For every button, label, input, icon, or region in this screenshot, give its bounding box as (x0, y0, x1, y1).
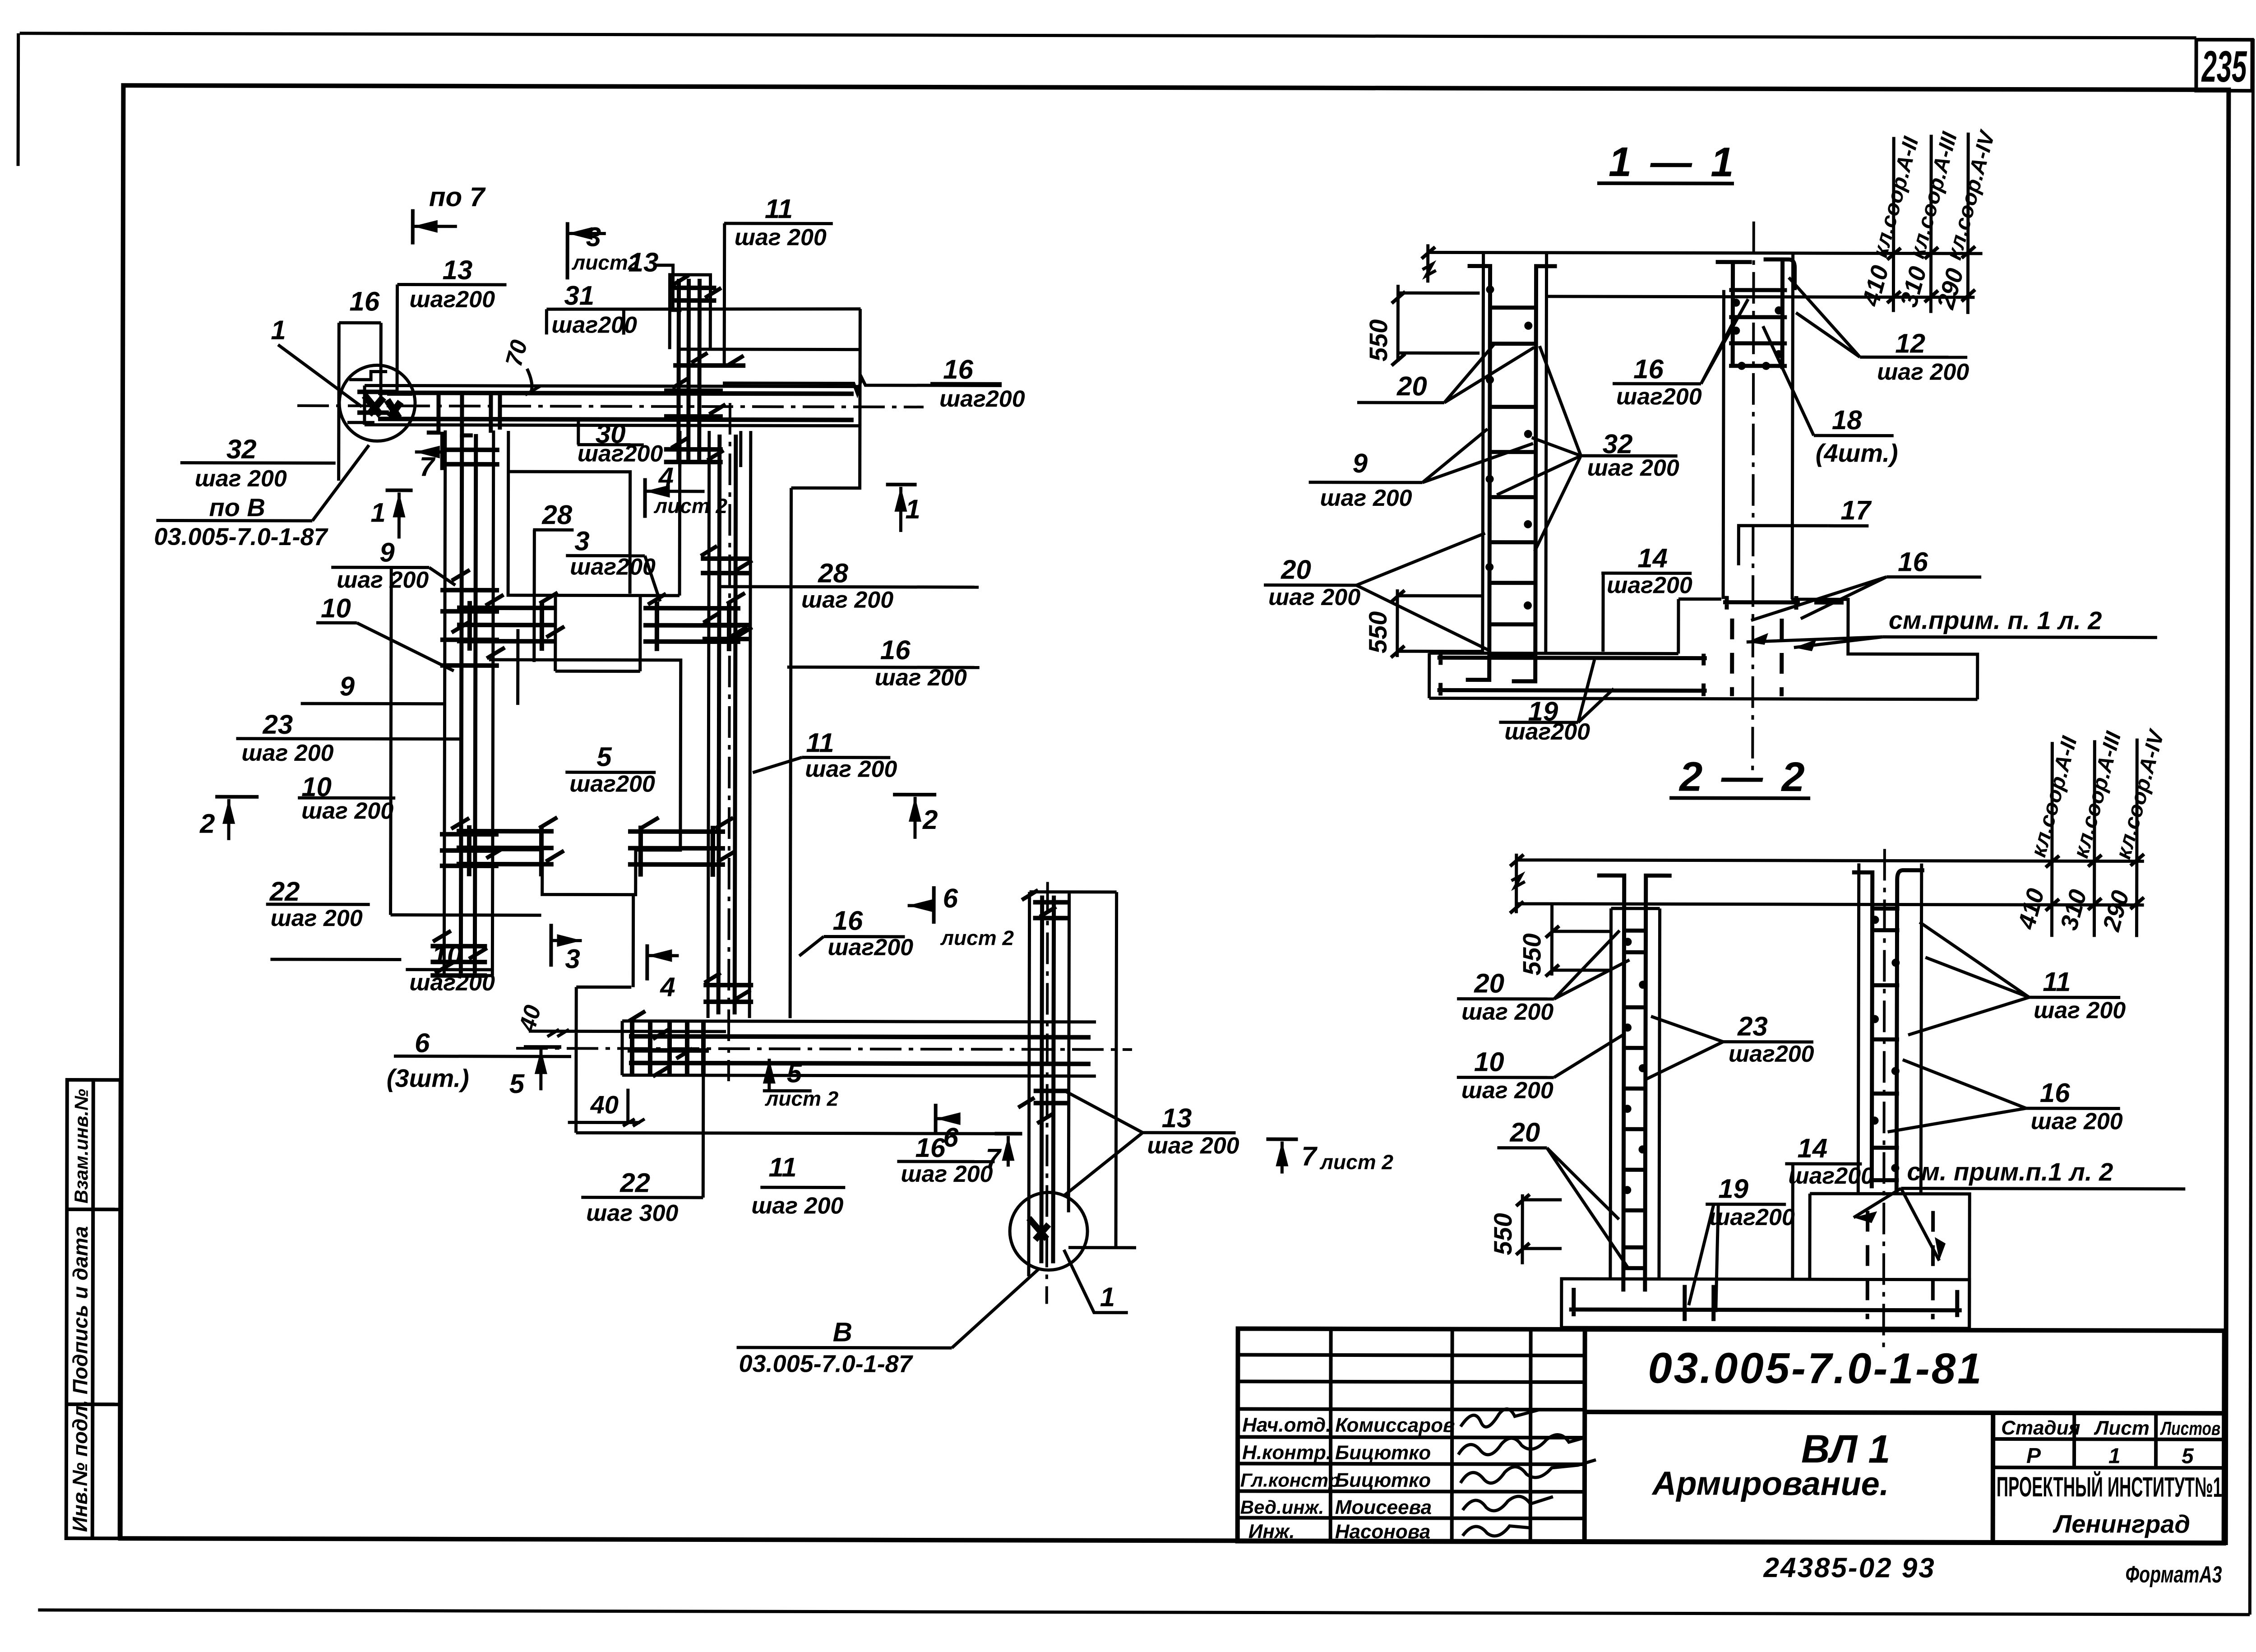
s22 right wall dots (1870, 916, 1900, 1172)
svg-text:шаг 300: шаг 300 (586, 1200, 678, 1226)
signature squiggle 2 (1458, 1435, 1585, 1455)
label po7 marker (411, 209, 415, 245)
plan: top wall axis dash-dot (297, 406, 924, 407)
title block signature table horizontals (1238, 1355, 1585, 1356)
paper trim border bottom (38, 1610, 2250, 1615)
s22 dim 550 bottom (1522, 1194, 1562, 1264)
plan: top wall lower rebar (378, 419, 854, 420)
plan: bottom-right hook blobs in circle (1029, 1218, 1049, 1240)
plan: right band ties (700, 559, 754, 1002)
plan: right band rebars (718, 435, 736, 1014)
plan: crossing band top ties (672, 288, 745, 366)
svg-text:шаг 200: шаг 200 (337, 567, 429, 593)
svg-text:1 — 1: 1 — 1 (1609, 139, 1738, 185)
plan: left wall tie cluster A (440, 590, 499, 666)
svg-text:шаг 200: шаг 200 (1268, 584, 1360, 611)
plan: tie cluster C2 (643, 602, 740, 651)
plan: left wall side bar pair (391, 567, 542, 915)
svg-text:6: 6 (415, 1028, 430, 1058)
plan: crossing band top cap (670, 275, 710, 349)
svg-text:Армирование.: Армирование. (1651, 1464, 1889, 1502)
section mark 2 right (893, 793, 936, 796)
svg-text:ПРОЕКТНЫЙ ИНСТИТУТ№1: ПРОЕКТНЫЙ ИНСТИТУТ№1 (1997, 1471, 2222, 1503)
title block outer (1238, 1328, 2224, 1543)
plan: detail circle 1 (left end) (339, 365, 415, 441)
svg-text:шаг 200: шаг 200 (1147, 1133, 1239, 1159)
svg-text:16: 16 (1898, 546, 1928, 577)
plan: cluster hook ticks (433, 275, 1058, 1124)
svg-text:лист 2: лист 2 (1319, 1150, 1393, 1174)
plan: right vertical band outlines (708, 431, 791, 1018)
plan: bottom wall outlines (622, 1021, 1096, 1076)
svg-text:шаг200: шаг200 (1607, 572, 1692, 598)
plan: crossing band bottom ties (664, 449, 723, 462)
PLAN (152, 181, 1241, 1378)
svg-text:10: 10 (1474, 1047, 1504, 1077)
s11 left wall ties (1489, 308, 1536, 656)
signature squiggle 1 (1461, 1409, 1539, 1427)
svg-text:550: 550 (1517, 933, 1546, 976)
svg-text:шаг 200: шаг 200 (1461, 999, 1553, 1025)
s22 right wall rebars with hooks (1851, 870, 1924, 1193)
svg-text:20: 20 (1474, 968, 1504, 999)
s11 left wall rebar right with hooks (1512, 266, 1557, 681)
svg-text:20: 20 (1396, 371, 1427, 401)
svg-text:22: 22 (269, 876, 300, 907)
svg-text:17: 17 (1840, 495, 1872, 525)
svg-text:16: 16 (943, 354, 974, 384)
svg-text:см.прим. п. 1 л. 2: см.прим. п. 1 л. 2 (1889, 606, 2102, 634)
svg-text:Гл.констр: Гл.констр (1240, 1469, 1340, 1490)
svg-text:70: 70 (501, 337, 533, 369)
s11 left wall outlines (1483, 253, 1547, 653)
plan: rebar end blobs in circle (365, 395, 401, 418)
svg-text:Комиссаров: Комиссаров (1335, 1414, 1455, 1437)
svg-text:550: 550 (1489, 1213, 1517, 1255)
svg-text:24385-02 93: 24385-02 93 (1763, 1552, 1935, 1584)
svg-text:ФорматА3: ФорматА3 (2125, 1562, 2222, 1588)
signature squiggle 3 (1461, 1459, 1596, 1483)
plan: crossing band rebar verticals (679, 279, 700, 464)
svg-text:3: 3 (574, 526, 590, 556)
plan: top wall bottom outline (365, 425, 860, 426)
svg-text:2: 2 (199, 809, 215, 839)
s22 left wall rebars with hooks (1596, 875, 1672, 1291)
s22 marker 7 list2 (1267, 1138, 1298, 1141)
plan: left wall tie cluster top (441, 450, 499, 464)
svg-text:Взам.инв.№: Взам.инв.№ (70, 1089, 92, 1203)
svg-text:по В: по В (209, 493, 265, 522)
svg-text:11: 11 (765, 194, 793, 224)
svg-text:10: 10 (432, 940, 462, 970)
svg-text:лист 2: лист 2 (940, 926, 1014, 949)
section mark 4 bottom (645, 944, 649, 981)
paper trim border left stub (17, 33, 20, 166)
leader to detail circle bottom (1064, 1250, 1128, 1313)
svg-text:шаг 200: шаг 200 (735, 224, 827, 250)
s11 footing rebar with hooks (1438, 653, 1707, 696)
svg-text:19: 19 (1718, 1174, 1749, 1204)
s11 footing outline (1429, 598, 1978, 699)
s11 right wall outlines (1723, 253, 1793, 599)
svg-text:Инж.: Инж. (1248, 1520, 1295, 1542)
paper trim border right (2250, 39, 2253, 1615)
s22 footing bar stubs (1685, 1285, 1714, 1321)
label 7 marker small (440, 432, 444, 470)
svg-text:5: 5 (2182, 1444, 2194, 1468)
plan: middle lower rectangle (489, 660, 681, 895)
plan: top wall upper rebar (378, 393, 854, 393)
svg-text:шаг 200: шаг 200 (805, 756, 897, 782)
plan: top wall left end cap (363, 385, 366, 425)
svg-text:Р: Р (2026, 1444, 2041, 1468)
svg-text:16: 16 (1633, 354, 1664, 384)
svg-text:13: 13 (629, 247, 659, 278)
svg-text:Лист: Лист (2094, 1417, 2150, 1439)
svg-text:Листов: Листов (2160, 1418, 2220, 1439)
svg-text:5: 5 (509, 1069, 525, 1099)
plan: bottom wall rebars (629, 1037, 1091, 1064)
plan: left end hook detail strokes (357, 392, 398, 412)
svg-text:1: 1 (2108, 1444, 2121, 1468)
s11 dashed anchor bars (1732, 619, 1782, 696)
section 2-2 title underline (1669, 796, 1810, 800)
svg-text:7: 7 (420, 452, 436, 482)
plan: middle upper rectangle (508, 431, 680, 671)
svg-text:шаг 200: шаг 200 (1461, 1077, 1553, 1103)
s22 right step outline (1810, 1194, 1970, 1328)
svg-text:(3шт.): (3шт.) (387, 1064, 469, 1092)
label 5 list2 bottom center (767, 1059, 771, 1091)
s22 top dim extension (1512, 854, 2144, 915)
svg-text:Вед.инж.: Вед.инж. (1240, 1496, 1324, 1518)
svg-text:14: 14 (1797, 1133, 1827, 1163)
page number box (2196, 40, 2252, 91)
plan: left wall tie cluster B (440, 834, 499, 866)
svg-text:290: 290 (1932, 265, 1969, 312)
plan: bottom-right band rebars (1041, 896, 1054, 1263)
s11 right axis dash-dot (1752, 222, 1754, 771)
plan: crossing band mid ties (664, 391, 723, 416)
svg-text:9: 9 (340, 671, 355, 701)
svg-text:310: 310 (2055, 887, 2092, 933)
s22 right axis dash-dot (1884, 849, 1885, 1353)
s22 right wall ties (1870, 908, 1899, 1180)
plan: top wall leader line 16 with break (723, 378, 1002, 393)
svg-text:шаг 200: шаг 200 (271, 905, 363, 931)
s22 footing rebar (1569, 1288, 1962, 1317)
svg-text:7: 7 (985, 1143, 1002, 1173)
plan: bottom-right band axis dash-dot (1047, 882, 1048, 1304)
plan: foundation step right (791, 309, 860, 488)
s22 dim oblique ticks (1510, 855, 1524, 913)
svg-text:Бицютко: Бицютко (1335, 1442, 1431, 1464)
svg-text:Н.контр.: Н.контр. (1242, 1441, 1331, 1463)
s11 left wall rebar left with hooks (1466, 266, 1490, 680)
s11 right top cage verticals (1733, 261, 1783, 369)
svg-text:шаг200: шаг200 (1709, 1204, 1795, 1231)
svg-text:шаг 200: шаг 200 (801, 587, 893, 613)
svg-text:22: 22 (619, 1168, 650, 1198)
section mark 1 left (386, 488, 413, 492)
label 5 arrow bottom-left (524, 1045, 561, 1049)
s11 left wall rebar dots (1485, 286, 1533, 610)
svg-text:(4шт.): (4шт.) (1816, 439, 1898, 467)
svg-text:11: 11 (2043, 967, 2071, 997)
svg-text:лист 2: лист 2 (653, 494, 727, 518)
svg-text:Инв.№ подл.: Инв.№ подл. (68, 1400, 92, 1532)
plan: bottom-right band ties (1033, 902, 1070, 1103)
svg-text:03.005-7.0-1-81: 03.005-7.0-1-81 (1648, 1344, 1983, 1393)
title block doc number field line (1585, 1412, 2224, 1413)
s11 dim 550 bottom (1397, 589, 1483, 657)
svg-text:03.005-7.0-1-87: 03.005-7.0-1-87 (154, 523, 328, 551)
s11 right step outline (1791, 599, 1978, 699)
signature squiggle 5 (1463, 1526, 1530, 1536)
svg-text:23: 23 (1737, 1011, 1768, 1041)
s11 top dimension line (1422, 244, 1974, 297)
signature squiggle 4 (1463, 1496, 1553, 1511)
plan: bottom wall left foundation outline (529, 894, 1019, 1134)
svg-text:шаг 200: шаг 200 (751, 1193, 843, 1219)
svg-text:шаг 200: шаг 200 (2031, 1108, 2123, 1134)
svg-text:32: 32 (227, 434, 257, 464)
svg-text:5: 5 (787, 1058, 803, 1088)
svg-text:31: 31 (564, 280, 594, 310)
paper trim border top (20, 33, 2196, 38)
svg-text:6: 6 (943, 1122, 958, 1152)
svg-text:3: 3 (586, 222, 601, 252)
label 3 list2 marker top (566, 222, 569, 279)
svg-text:шаг 200: шаг 200 (241, 740, 333, 766)
plan: left vertical wall outlines (444, 430, 494, 976)
svg-text:20: 20 (1281, 555, 1311, 585)
svg-text:шаг200: шаг200 (570, 554, 656, 580)
title block signature table verticals (1329, 1329, 1333, 1541)
plan: left vertical wall rebars (461, 434, 476, 973)
svg-text:16: 16 (915, 1133, 946, 1163)
svg-text:шаг 200: шаг 200 (1587, 455, 1679, 481)
svg-text:В: В (833, 1317, 852, 1347)
label 4 list2 marker (643, 478, 647, 518)
svg-text:4: 4 (660, 972, 675, 1002)
SECTIONS (1262, 125, 2188, 1354)
svg-text:11: 11 (768, 1152, 796, 1182)
s11 right cage dots (1732, 299, 1783, 370)
svg-text:1: 1 (1100, 1282, 1115, 1312)
s11 top surface line (1428, 252, 1983, 254)
svg-text:2: 2 (922, 805, 938, 835)
svg-text:шаг 200: шаг 200 (2034, 997, 2126, 1023)
plan: top wall top outline (365, 385, 860, 386)
svg-text:по 7: по 7 (429, 182, 486, 212)
svg-text:410: 410 (2013, 886, 2050, 933)
svg-text:28: 28 (818, 558, 849, 588)
plan: bottom-right vertical band outlines (1029, 892, 1137, 1276)
s22 left wall dots (1623, 938, 1647, 1194)
svg-text:шаг200: шаг200 (578, 440, 663, 467)
label 6 list2 right (932, 886, 936, 924)
svg-text:шаг 200: шаг 200 (195, 466, 287, 492)
plan: crossing band lower part (680, 431, 741, 467)
svg-text:шаг200: шаг200 (939, 386, 1025, 412)
svg-text:16: 16 (2040, 1078, 2071, 1108)
svg-text:шаг200: шаг200 (1788, 1163, 1874, 1189)
s11 rotated dim separators (1893, 132, 1968, 314)
plan: tie cluster C3 (457, 825, 554, 876)
svg-text:16: 16 (349, 286, 380, 316)
svg-text:шаг200: шаг200 (1616, 384, 1702, 410)
svg-text:12: 12 (1895, 328, 1925, 358)
s11 dim oblique ticks (1422, 247, 1435, 259)
svg-text:40: 40 (590, 1090, 619, 1119)
label 6 bottom tick (934, 1104, 938, 1133)
svg-text:10: 10 (321, 593, 351, 623)
section 1-1 title underline (1597, 181, 1734, 185)
plan: foundation outline above top wall right part (679, 347, 860, 351)
svg-text:13: 13 (443, 255, 473, 285)
svg-text:16: 16 (832, 906, 863, 936)
svg-text:Насонова: Насонова (1335, 1521, 1431, 1543)
svg-text:03.005-7.0-1-87: 03.005-7.0-1-87 (739, 1350, 913, 1378)
plan: tie cluster C1 (457, 601, 554, 651)
plan: right band axis dash-dot (729, 403, 730, 1081)
plan: left wall tie cluster C (430, 946, 487, 976)
svg-text:16: 16 (880, 635, 911, 665)
s22 left wall ties (1623, 930, 1647, 1268)
svg-text:шаг 200: шаг 200 (1877, 359, 1969, 385)
svg-text:лист 2: лист 2 (765, 1087, 839, 1110)
svg-text:9: 9 (1353, 448, 1368, 478)
svg-text:шаг200: шаг200 (1729, 1041, 1814, 1067)
svg-text:шаг 200: шаг 200 (301, 798, 393, 824)
s11 dim 550 top (1398, 285, 1479, 361)
s22 left wall outlines (1610, 908, 1660, 1279)
svg-text:290: 290 (2098, 888, 2135, 935)
svg-text:11: 11 (806, 727, 834, 758)
svg-text:9: 9 (379, 537, 395, 567)
plan: tie cluster C4 (628, 826, 725, 877)
s11 right top cage hooks (1715, 259, 1794, 290)
s22 dashed anchor bars right (1868, 1211, 1933, 1319)
svg-text:Нач.отд.: Нач.отд. (1242, 1414, 1331, 1436)
svg-text:28: 28 (541, 500, 573, 530)
svg-text:5: 5 (596, 741, 612, 772)
svg-text:4: 4 (658, 462, 674, 492)
svg-text:шаг200: шаг200 (828, 935, 913, 961)
svg-text:Подпись и дата: Подпись и дата (68, 1226, 92, 1394)
svg-text:шаг200: шаг200 (409, 287, 495, 313)
svg-text:1: 1 (271, 315, 286, 345)
svg-text:Ленинград: Ленинград (2053, 1509, 2190, 1538)
svg-text:235: 235 (2201, 42, 2247, 91)
svg-text:шаг 200: шаг 200 (901, 1161, 993, 1187)
svg-text:20: 20 (1510, 1117, 1540, 1148)
s11 right footing rebar (1723, 596, 1844, 610)
s22 right wall outlines (1858, 863, 1922, 1194)
svg-text:23: 23 (262, 709, 293, 740)
svg-text:550: 550 (1364, 611, 1392, 654)
left margin stamp column boxes (66, 1080, 120, 1538)
svg-text:13: 13 (1162, 1103, 1192, 1133)
svg-text:14: 14 (1637, 543, 1668, 573)
svg-text:18: 18 (1832, 405, 1863, 435)
name field vertical (1991, 1413, 1996, 1543)
svg-text:3: 3 (565, 944, 580, 974)
svg-text:1: 1 (370, 497, 386, 528)
svg-text:шаг200: шаг200 (1504, 719, 1590, 745)
svg-text:Стадия: Стадия (2001, 1417, 2080, 1439)
s11 right top cage ties (1729, 290, 1787, 366)
section mark 2 left (215, 795, 259, 799)
plan: detail circle B (bottom right) (1010, 1192, 1087, 1270)
svg-text:7: 7 (1301, 1141, 1318, 1171)
svg-text:2 — 2: 2 — 2 (1678, 754, 1808, 800)
section mark 3 bottom (549, 924, 553, 967)
plan: bottom wall axis dash-dot (516, 1048, 1132, 1050)
svg-text:1: 1 (905, 494, 920, 524)
s22 dim 550 top (1552, 903, 1611, 976)
svg-text:6: 6 (943, 883, 958, 913)
svg-text:550: 550 (1364, 319, 1392, 362)
svg-text:см. прим.п.1 л. 2: см. прим.п.1 л. 2 (1907, 1157, 2113, 1186)
s22 rotated dim separators (2052, 738, 2137, 937)
svg-text:шаг 200: шаг 200 (875, 665, 967, 691)
svg-text:шаг 200: шаг 200 (1320, 485, 1412, 511)
plan: bottom wall left tie cluster (628, 1021, 709, 1074)
svg-text:шаг200: шаг200 (569, 771, 655, 797)
stadia list listov header cells (1993, 1439, 2224, 1439)
svg-text:Бицютко: Бицютко (1335, 1469, 1431, 1491)
s22 footing outline (1562, 1279, 1969, 1328)
svg-text:Моисеева: Моисеева (1335, 1496, 1432, 1518)
svg-text:шаг200: шаг200 (409, 970, 495, 996)
section mark 1 right (886, 483, 917, 486)
